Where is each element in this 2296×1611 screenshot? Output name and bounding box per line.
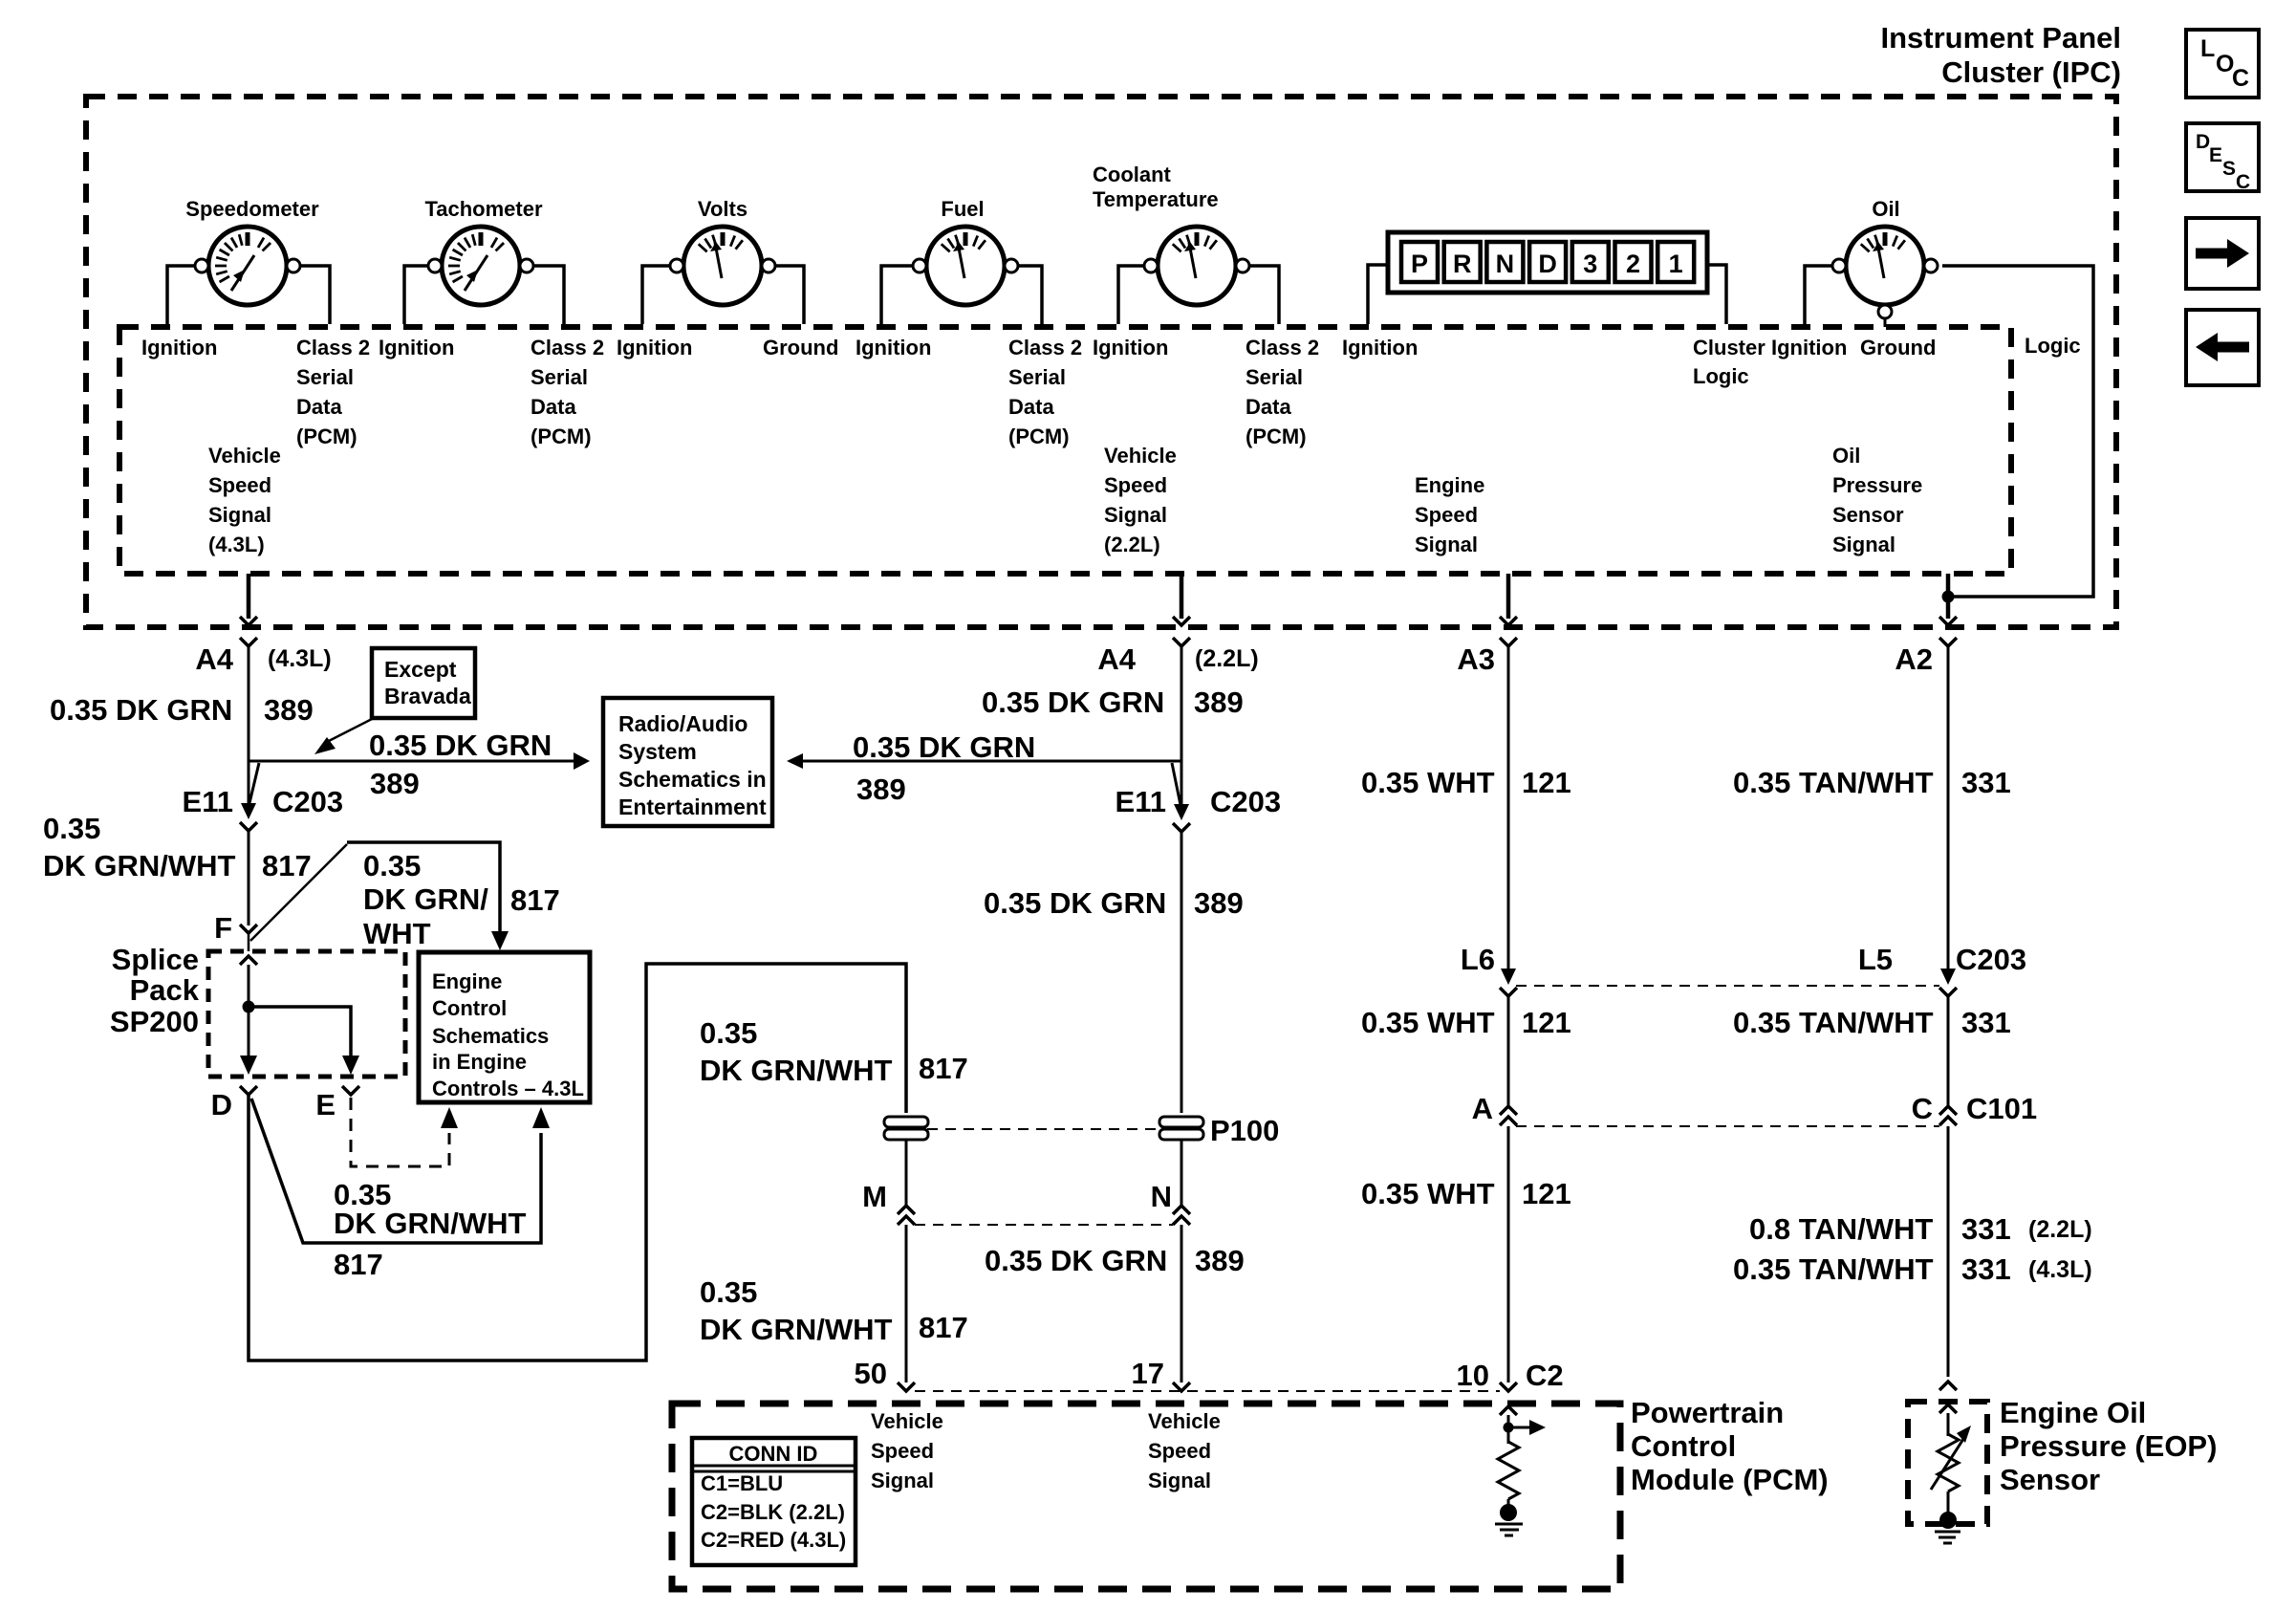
svg-text:Ignition: Ignition bbox=[141, 336, 217, 359]
svg-text:389: 389 bbox=[370, 767, 420, 800]
svg-text:D: D bbox=[2196, 131, 2210, 153]
svg-text:Logic: Logic bbox=[2025, 334, 2081, 358]
pin E splice output bbox=[342, 1086, 359, 1095]
PCM internal signal arrow to logic bbox=[1508, 1426, 1529, 1429]
pin A4 connector IPC 2.2L bbox=[1173, 638, 1190, 646]
svg-text:121: 121 bbox=[1522, 1177, 1571, 1210]
svg-text:Ignition: Ignition bbox=[617, 336, 692, 359]
svg-text:Speedometer: Speedometer bbox=[185, 197, 319, 221]
svg-text:Entertainment: Entertainment bbox=[618, 795, 767, 819]
svg-text:Data: Data bbox=[1245, 395, 1291, 419]
svg-text:Signal: Signal bbox=[208, 503, 271, 527]
PRNDL gear selector display bbox=[1388, 232, 1707, 293]
svg-text:Controls – 4.3L: Controls – 4.3L bbox=[432, 1077, 584, 1100]
svg-text:(4.3L): (4.3L) bbox=[268, 645, 332, 672]
connector C203 pin E11 (4.3L wire) bbox=[248, 761, 250, 803]
wire oil ignition bbox=[1805, 266, 1832, 324]
svg-text:(PCM): (PCM) bbox=[296, 425, 357, 448]
svg-text:0.35 DK GRN: 0.35 DK GRN bbox=[985, 1244, 1167, 1277]
svg-text:17: 17 bbox=[1132, 1357, 1164, 1390]
svg-text:Data: Data bbox=[531, 395, 576, 419]
node EOP ground junction bbox=[1939, 1512, 1957, 1529]
svg-text:Speed: Speed bbox=[1415, 503, 1478, 527]
svg-text:Vehicle: Vehicle bbox=[208, 444, 281, 468]
pin A connector C101 bbox=[1500, 1106, 1517, 1115]
svg-text:0.8 TAN/WHT: 0.8 TAN/WHT bbox=[1749, 1212, 1933, 1246]
wire speedometer ignition bbox=[167, 266, 195, 324]
wire fuel class2 data bbox=[1018, 266, 1042, 324]
svg-text:10: 10 bbox=[1457, 1359, 1489, 1392]
wire 389 below C203 bbox=[1180, 832, 1183, 1113]
svg-text:0.35 WHT: 0.35 WHT bbox=[1361, 1177, 1495, 1210]
svg-text:121: 121 bbox=[1522, 1006, 1571, 1039]
svg-text:Ignition: Ignition bbox=[1093, 336, 1168, 359]
svg-text:0.35 DK GRN: 0.35 DK GRN bbox=[984, 886, 1166, 920]
wire 389 to PCM pin 17 bbox=[1180, 1225, 1183, 1382]
svg-text:N: N bbox=[1496, 250, 1515, 278]
dashed pin line PCM connector face bbox=[915, 1390, 1500, 1392]
icon DESC button bbox=[2186, 123, 2259, 191]
svg-text:Tachometer: Tachometer bbox=[424, 197, 543, 221]
svg-text:2: 2 bbox=[1626, 250, 1640, 278]
connector C203 pin L6 bbox=[1501, 969, 1516, 985]
svg-text:389: 389 bbox=[264, 693, 314, 727]
wire circuit 389 dk grn 2.2L bbox=[1180, 646, 1183, 806]
node F splice pack input bbox=[240, 925, 257, 933]
svg-text:Class 2: Class 2 bbox=[531, 336, 604, 359]
wire circuit 331 tan/wht lower bbox=[1947, 1126, 1950, 1377]
svg-text:817: 817 bbox=[510, 883, 560, 917]
svg-text:0.35 TAN/WHT: 0.35 TAN/WHT bbox=[1733, 766, 1934, 799]
wire vehicle speed signal 2.2L leaves IPC bbox=[1180, 574, 1184, 619]
wire circuit 331 tan/wht upper bbox=[1947, 646, 1950, 969]
wire branch 389 to radio (2.2L side) bbox=[799, 760, 1181, 763]
dashed link L6 to L5 bbox=[1516, 985, 1939, 987]
svg-text:DK GRN/WHT: DK GRN/WHT bbox=[43, 849, 236, 882]
svg-text:0.35: 0.35 bbox=[700, 1016, 757, 1050]
svg-text:Engine Oil: Engine Oil bbox=[2000, 1396, 2146, 1429]
svg-text:Radio/Audio: Radio/Audio bbox=[618, 711, 747, 736]
svg-text:Cluster (IPC): Cluster (IPC) bbox=[1941, 55, 2121, 89]
svg-text:A2: A2 bbox=[1895, 642, 1933, 676]
wire oil pressure sensor signal leaves IPC bbox=[1946, 574, 1951, 619]
svg-text:C: C bbox=[1912, 1092, 1933, 1125]
connector C203 pin L5 bbox=[1940, 969, 1956, 985]
svg-text:Data: Data bbox=[1008, 395, 1054, 419]
svg-text:50: 50 bbox=[855, 1357, 887, 1390]
wire fuel ignition bbox=[881, 266, 913, 324]
ground PCM internal bbox=[1495, 1523, 1523, 1526]
icon previous-page arrow button bbox=[2186, 310, 2259, 385]
node splice junction bbox=[243, 1001, 255, 1013]
svg-text:Pressure (EOP): Pressure (EOP) bbox=[2000, 1429, 2217, 1463]
svg-text:C203: C203 bbox=[272, 785, 343, 818]
svg-text:Engine: Engine bbox=[432, 969, 502, 993]
svg-text:A: A bbox=[1472, 1092, 1493, 1125]
terminal oil ground bbox=[1878, 305, 1892, 318]
svg-text:817: 817 bbox=[919, 1052, 968, 1085]
wire gear selector cluster logic bbox=[1707, 265, 1726, 324]
svg-text:Oil: Oil bbox=[1832, 444, 1860, 468]
grommet P100 right bbox=[1159, 1117, 1203, 1127]
wire gear selector ignition bbox=[1368, 265, 1388, 324]
svg-text:Serial: Serial bbox=[1245, 365, 1303, 389]
svg-text:L6: L6 bbox=[1461, 943, 1495, 976]
svg-text:Instrument Panel: Instrument Panel bbox=[1881, 21, 2122, 54]
svg-text:Speed: Speed bbox=[871, 1439, 934, 1463]
splice pack SP200 dashed box bbox=[208, 951, 405, 1077]
svg-text:0.35 WHT: 0.35 WHT bbox=[1361, 1006, 1495, 1039]
svg-text:(4.3L): (4.3L) bbox=[2028, 1256, 2092, 1283]
svg-text:Sensor: Sensor bbox=[2000, 1463, 2100, 1496]
svg-text:in Engine: in Engine bbox=[432, 1050, 527, 1074]
wire 817 to PCM pin 50 bbox=[905, 1225, 908, 1382]
svg-text:Vehicle: Vehicle bbox=[1104, 444, 1177, 468]
pin C connector C101 bbox=[1939, 1106, 1957, 1115]
leader line label 817 to F bbox=[250, 844, 347, 941]
svg-text:F: F bbox=[214, 911, 232, 945]
pin 50 PCM connector bbox=[898, 1382, 915, 1391]
svg-text:Sensor: Sensor bbox=[1832, 503, 1904, 527]
svg-text:Pressure: Pressure bbox=[1832, 473, 1922, 497]
dashed box Engine Oil Pressure (EOP) Sensor bbox=[1908, 1402, 1987, 1524]
svg-text:C203: C203 bbox=[1956, 943, 2026, 976]
leader arrow from Except Bravada bbox=[327, 718, 374, 742]
svg-text:0.35: 0.35 bbox=[363, 849, 421, 882]
svg-text:Except: Except bbox=[384, 657, 457, 682]
svg-text:CONN ID: CONN ID bbox=[729, 1442, 818, 1466]
node PCM internal junction bbox=[1504, 1423, 1514, 1433]
svg-text:L: L bbox=[2200, 35, 2215, 62]
svg-text:C101: C101 bbox=[1966, 1092, 2037, 1125]
wire tachometer class2 data bbox=[533, 266, 564, 324]
splice SP200 internal wire bbox=[240, 956, 257, 965]
svg-text:Vehicle: Vehicle bbox=[871, 1409, 943, 1433]
svg-text:121: 121 bbox=[1522, 766, 1571, 799]
svg-text:Signal: Signal bbox=[871, 1469, 934, 1492]
svg-text:Class 2: Class 2 bbox=[296, 336, 370, 359]
svg-text:0.35 DK GRN: 0.35 DK GRN bbox=[50, 693, 232, 727]
svg-text:Speed: Speed bbox=[1104, 473, 1167, 497]
svg-text:Ground: Ground bbox=[763, 336, 838, 359]
dashed box Powertrain Control Module (PCM) bbox=[672, 1404, 1620, 1589]
svg-text:389: 389 bbox=[856, 773, 906, 806]
svg-text:E11: E11 bbox=[183, 785, 233, 818]
svg-text:Signal: Signal bbox=[1104, 503, 1167, 527]
wire tachometer ignition bbox=[404, 266, 428, 324]
svg-text:(PCM): (PCM) bbox=[1245, 425, 1307, 448]
wire below P100 left bbox=[905, 1140, 908, 1206]
svg-text:Data: Data bbox=[296, 395, 342, 419]
svg-text:E11: E11 bbox=[1116, 785, 1166, 818]
dashed link M to N bbox=[915, 1224, 1173, 1226]
pin M pass-through bbox=[898, 1206, 915, 1214]
wire circuit 121 wht lower bbox=[1507, 1126, 1510, 1382]
svg-text:R: R bbox=[1453, 250, 1472, 278]
svg-text:P: P bbox=[1411, 250, 1428, 278]
svg-text:DK GRN/: DK GRN/ bbox=[363, 882, 488, 916]
svg-text:Vehicle: Vehicle bbox=[1148, 1409, 1221, 1433]
svg-text:C: C bbox=[2236, 171, 2250, 193]
svg-text:Class 2: Class 2 bbox=[1008, 336, 1082, 359]
svg-text:(2.2L): (2.2L) bbox=[2028, 1216, 2092, 1243]
table CONN ID bbox=[692, 1438, 856, 1565]
splice branch wire to E bbox=[249, 1007, 351, 1056]
svg-text:1: 1 bbox=[1669, 250, 1683, 278]
svg-text:0.35: 0.35 bbox=[43, 812, 100, 845]
svg-text:817: 817 bbox=[334, 1248, 383, 1281]
svg-text:0.35 DK GRN: 0.35 DK GRN bbox=[982, 686, 1164, 719]
pin A4 connector IPC 4.3L bbox=[240, 638, 257, 646]
svg-text:A4: A4 bbox=[1097, 642, 1136, 676]
svg-text:(2.2L): (2.2L) bbox=[1104, 533, 1160, 556]
svg-text:Engine: Engine bbox=[1415, 473, 1484, 497]
svg-text:Bravada: Bravada bbox=[384, 684, 471, 708]
wire engine speed signal leaves IPC bbox=[1506, 574, 1511, 619]
svg-text:Ignition: Ignition bbox=[856, 336, 931, 359]
svg-text:Serial: Serial bbox=[296, 365, 354, 389]
svg-text:389: 389 bbox=[1194, 886, 1244, 920]
svg-text:SP200: SP200 bbox=[110, 1005, 199, 1038]
wire below P100 right bbox=[1180, 1140, 1183, 1206]
svg-text:System: System bbox=[618, 739, 697, 764]
svg-text:P100: P100 bbox=[1210, 1114, 1279, 1147]
dashed box Instrument Panel Cluster (IPC) bbox=[86, 97, 2116, 627]
svg-text:Temperature: Temperature bbox=[1093, 187, 1219, 211]
resistor PCM pull-up bbox=[1498, 1442, 1519, 1499]
wire circuit 121 wht upper bbox=[1507, 646, 1510, 969]
svg-text:A3: A3 bbox=[1457, 642, 1495, 676]
svg-text:331: 331 bbox=[1961, 1252, 2011, 1286]
wire from D to engine control schematics bbox=[251, 1099, 541, 1243]
svg-text:Signal: Signal bbox=[1415, 533, 1478, 556]
svg-text:Speed: Speed bbox=[208, 473, 271, 497]
svg-text:C: C bbox=[2232, 65, 2249, 92]
svg-text:D: D bbox=[1538, 250, 1557, 278]
svg-text:Serial: Serial bbox=[1008, 365, 1066, 389]
svg-text:C2: C2 bbox=[1526, 1359, 1564, 1392]
svg-text:3: 3 bbox=[1583, 250, 1597, 278]
wire branch 389 to radio (4.3L side) bbox=[249, 760, 576, 763]
svg-text:C2=BLK (2.2L): C2=BLK (2.2L) bbox=[701, 1500, 845, 1524]
connector C203 pin E11 (2.2L wire) bbox=[1174, 804, 1189, 820]
pin A3 connector IPC bbox=[1500, 638, 1517, 646]
wire circuit 331 tan/wht middle bbox=[1947, 996, 1950, 1106]
svg-text:Control: Control bbox=[1631, 1429, 1736, 1463]
svg-text:Pack: Pack bbox=[130, 973, 200, 1007]
svg-text:(PCM): (PCM) bbox=[1008, 425, 1070, 448]
svg-text:0.35 TAN/WHT: 0.35 TAN/WHT bbox=[1733, 1006, 1934, 1039]
node logic branch junction bbox=[1942, 591, 1955, 603]
svg-text:0.35 TAN/WHT: 0.35 TAN/WHT bbox=[1733, 1252, 1934, 1286]
svg-text:Coolant: Coolant bbox=[1093, 163, 1172, 186]
svg-text:C203: C203 bbox=[1210, 785, 1281, 818]
svg-text:M: M bbox=[862, 1180, 887, 1213]
svg-text:(4.3L): (4.3L) bbox=[208, 533, 265, 556]
svg-text:DK GRN/WHT: DK GRN/WHT bbox=[700, 1054, 893, 1087]
node PCM ground junction bbox=[1500, 1504, 1517, 1521]
svg-text:A4: A4 bbox=[195, 642, 233, 676]
svg-text:E: E bbox=[315, 1088, 336, 1121]
svg-text:Logic: Logic bbox=[1693, 364, 1749, 388]
pin 17 PCM connector bbox=[1173, 1382, 1190, 1391]
svg-text:Ground: Ground bbox=[1860, 336, 1936, 359]
EOP internal input arrow bbox=[1939, 1404, 1957, 1413]
wire volts ignition bbox=[642, 266, 670, 324]
wire circuit 817 dk grn/wht bbox=[248, 831, 250, 925]
svg-text:817: 817 bbox=[262, 849, 312, 882]
svg-text:Module (PCM): Module (PCM) bbox=[1631, 1463, 1829, 1496]
pin N pass-through bbox=[1173, 1206, 1190, 1214]
reference box Radio/Audio System Schematics in Entertainment bbox=[603, 698, 772, 826]
dashed wire from E to engine control schematics bbox=[351, 1098, 449, 1166]
grommet P100 left bbox=[884, 1117, 928, 1127]
icon LOC button bbox=[2186, 30, 2259, 98]
svg-text:DK GRN/WHT: DK GRN/WHT bbox=[334, 1207, 527, 1240]
wire oil logic to oil pressure node bbox=[1942, 266, 2093, 597]
ground EOP sensor bbox=[1935, 1531, 1960, 1534]
wire volts ground bbox=[775, 266, 804, 324]
svg-text:(2.2L): (2.2L) bbox=[1195, 645, 1259, 672]
svg-text:Speed: Speed bbox=[1148, 1439, 1211, 1463]
svg-text:DK GRN/WHT: DK GRN/WHT bbox=[700, 1313, 893, 1346]
svg-text:0.35: 0.35 bbox=[700, 1275, 757, 1309]
variable resistor EOP sensing element bbox=[1938, 1434, 1959, 1491]
wire from D to PCM pin 50 (long run) bbox=[249, 964, 906, 1361]
svg-text:331: 331 bbox=[1961, 1006, 2011, 1039]
svg-text:Powertrain: Powertrain bbox=[1631, 1396, 1784, 1429]
svg-text:L5: L5 bbox=[1858, 943, 1893, 976]
svg-text:S: S bbox=[2222, 158, 2236, 180]
pin A2 connector IPC bbox=[1939, 638, 1957, 646]
pin EOP sensor connector bbox=[1939, 1382, 1957, 1390]
svg-text:817: 817 bbox=[919, 1311, 968, 1344]
svg-text:N: N bbox=[1151, 1180, 1172, 1213]
wire circuit 389 dk grn 4.3L bbox=[248, 646, 250, 761]
svg-text:Ignition: Ignition bbox=[1342, 336, 1418, 359]
svg-text:C2=RED (4.3L): C2=RED (4.3L) bbox=[701, 1528, 846, 1552]
dashed link A to C bbox=[1516, 1125, 1939, 1127]
callout box Except Bravada bbox=[372, 648, 475, 718]
wire 817 branch to engine control schematics bbox=[347, 842, 500, 933]
svg-text:0.35 WHT: 0.35 WHT bbox=[1361, 766, 1495, 799]
wire vehicle speed signal 4.3L leaves IPC bbox=[247, 574, 251, 619]
wire speedometer class2 data bbox=[300, 266, 330, 324]
svg-text:D: D bbox=[211, 1088, 232, 1121]
svg-text:Control: Control bbox=[432, 996, 507, 1020]
svg-text:Fuel: Fuel bbox=[941, 197, 984, 221]
pin 10 PCM connector C2 bbox=[1500, 1382, 1517, 1391]
svg-text:Volts: Volts bbox=[698, 197, 747, 221]
svg-text:WHT: WHT bbox=[363, 917, 431, 950]
svg-text:331: 331 bbox=[1961, 766, 2011, 799]
dashed link P100 bbox=[927, 1128, 1159, 1130]
svg-text:389: 389 bbox=[1194, 686, 1244, 719]
svg-text:(PCM): (PCM) bbox=[531, 425, 592, 448]
wire coolant class2 data bbox=[1249, 266, 1279, 324]
dashed box IPC internal logic bbox=[119, 327, 2011, 574]
PCM internal input arrow pin 10 bbox=[1500, 1406, 1517, 1415]
wire circuit 121 wht middle bbox=[1507, 996, 1510, 1106]
pin D splice output bbox=[240, 1086, 257, 1095]
svg-text:389: 389 bbox=[1195, 1244, 1245, 1277]
svg-text:Splice: Splice bbox=[112, 943, 199, 976]
svg-text:331: 331 bbox=[1961, 1212, 2011, 1246]
svg-text:Ignition: Ignition bbox=[1771, 336, 1847, 359]
svg-text:Oil: Oil bbox=[1872, 197, 1899, 221]
svg-text:0.35 DK GRN: 0.35 DK GRN bbox=[369, 729, 552, 762]
svg-text:Serial: Serial bbox=[531, 365, 588, 389]
svg-text:Class 2: Class 2 bbox=[1245, 336, 1319, 359]
svg-text:Cluster: Cluster bbox=[1693, 336, 1765, 359]
wire coolant ignition bbox=[1118, 266, 1144, 324]
svg-text:Signal: Signal bbox=[1832, 533, 1895, 556]
reference box Engine Control Schematics in Engine Controls - 4.3L bbox=[419, 952, 590, 1102]
svg-text:Ignition: Ignition bbox=[379, 336, 454, 359]
svg-text:0.35 DK GRN: 0.35 DK GRN bbox=[853, 730, 1035, 764]
svg-text:E: E bbox=[2209, 144, 2222, 166]
svg-text:Schematics: Schematics bbox=[432, 1024, 549, 1048]
svg-text:C1=BLU: C1=BLU bbox=[701, 1471, 783, 1495]
svg-text:Schematics in: Schematics in bbox=[618, 767, 767, 792]
svg-text:Signal: Signal bbox=[1148, 1469, 1211, 1492]
icon next-page arrow button bbox=[2186, 218, 2259, 289]
